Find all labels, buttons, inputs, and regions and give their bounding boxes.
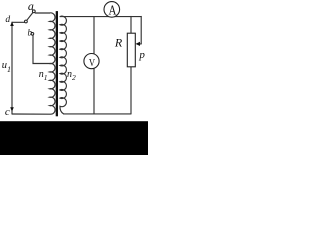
svg-text:b: b: [28, 28, 33, 38]
arrow up at d (u1): [10, 22, 14, 26]
wire slider stub: [139, 43, 141, 45]
rheostat R body: [127, 33, 135, 67]
ammeter A: [104, 2, 120, 18]
switch lever arm: [27, 12, 33, 20]
contact a circle: [32, 10, 35, 13]
arrow down at c (u1): [10, 107, 14, 111]
svg-text:V: V: [89, 57, 95, 69]
wire secondary top to ammeter and right corner: [61, 16, 142, 18]
svg-text:R: R: [114, 36, 123, 50]
wire a to primary coil top: [35, 12, 50, 14]
svg-text:a: a: [28, 0, 34, 13]
voltmeter V: [84, 54, 99, 69]
secondary winding n2: [60, 16, 66, 114]
rheostat slider arrow p: [136, 42, 141, 46]
wire d horizontal to switch pivot: [12, 21, 25, 23]
wire rheostat top connector: [130, 17, 132, 34]
wire left vertical (u1 branch, d to c): [11, 22, 13, 114]
transformer core: [56, 11, 58, 116]
svg-text:c: c: [5, 106, 10, 118]
wire bottom right rail: [64, 113, 132, 115]
svg-text:d: d: [5, 15, 10, 25]
wire b tap vertical: [33, 35, 50, 63]
wire voltmeter branch vertical: [93, 17, 95, 114]
svg-text:p: p: [138, 49, 145, 61]
black band bottom: [0, 121, 148, 155]
wire rheostat bottom connector: [130, 67, 132, 114]
contact b circle: [31, 32, 34, 35]
svg-text:A: A: [108, 3, 116, 18]
switch pivot circle: [25, 20, 28, 23]
primary winding n1: [12, 13, 55, 114]
wire right edge down to slider: [140, 17, 142, 44]
